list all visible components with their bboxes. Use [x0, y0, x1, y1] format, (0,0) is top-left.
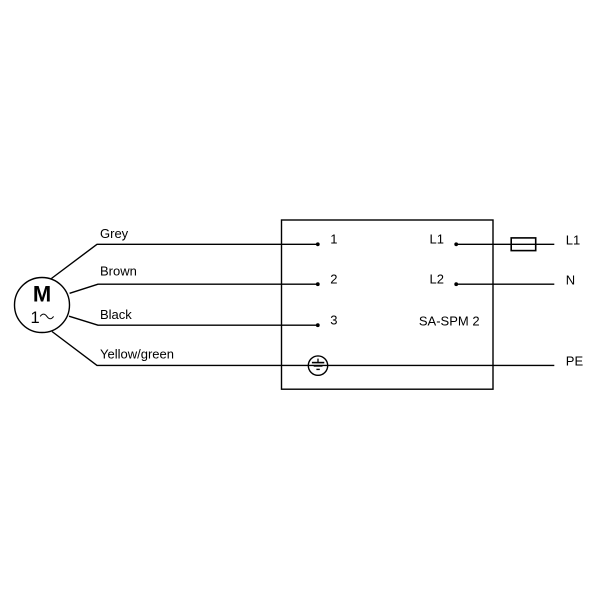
svg-text:L1: L1	[566, 233, 580, 248]
svg-text:1: 1	[330, 232, 337, 247]
wire N (terminal L2 to N)	[456, 283, 554, 285]
svg-text:1: 1	[31, 309, 40, 327]
svg-text:L1: L1	[430, 232, 444, 247]
svg-text:N: N	[566, 273, 575, 288]
svg-text:3: 3	[330, 313, 337, 328]
wire L1 (terminal L1 to fuse to L1)	[456, 243, 554, 245]
svg-text:Yellow/green: Yellow/green	[100, 347, 174, 362]
svg-text:M: M	[33, 282, 51, 307]
svg-text:PE: PE	[566, 354, 584, 369]
svg-text:2: 2	[330, 272, 337, 287]
terminal L2 dot	[454, 282, 458, 286]
svg-text:Grey: Grey	[100, 226, 129, 241]
terminal 3 dot	[316, 323, 320, 327]
terminal 2 dot	[316, 282, 320, 286]
fuse F1	[511, 238, 536, 251]
svg-text:Black: Black	[100, 307, 132, 322]
svg-text:L2: L2	[430, 272, 444, 287]
svg-text:Brown: Brown	[100, 264, 137, 279]
wire grey (motor to terminal 1)	[51, 244, 316, 278]
terminal L1 dot	[454, 242, 458, 246]
wire brown (motor to terminal 2)	[70, 284, 317, 293]
wire yellow/green (motor to PE)	[52, 332, 554, 366]
motor M1	[15, 278, 70, 333]
wire black (motor to terminal 3)	[69, 316, 317, 325]
terminal 1 dot	[316, 242, 320, 246]
svg-text:SA-SPM 2: SA-SPM 2	[419, 313, 480, 328]
box U1 SA-SPM 2	[282, 220, 494, 389]
ground symbol (protective earth)	[308, 356, 327, 375]
